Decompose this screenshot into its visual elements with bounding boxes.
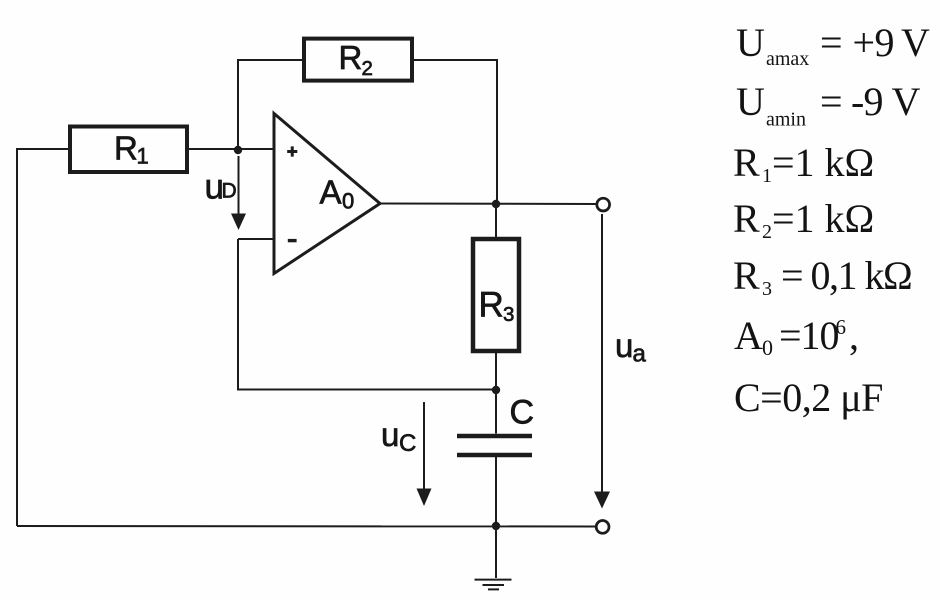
wire node C to capacitor (495, 390, 497, 434)
svg-text:Uamin=-9V: Uamin=-9V (736, 79, 921, 131)
svg-text:uC: uC (381, 416, 416, 457)
wire left rail (16, 149, 18, 526)
wire output node to R3 (495, 204, 497, 237)
resistor R3 (473, 239, 519, 351)
op-amp - input marker (288, 239, 297, 242)
node + input junction (234, 146, 242, 154)
resistor R2 (304, 39, 412, 81)
wire output (380, 203, 596, 206)
svg-text:R3= 0,1 kΩ: R3= 0,1 kΩ (733, 253, 911, 300)
wire R2 left branch (238, 60, 302, 150)
svg-text:C: C (510, 393, 535, 431)
node ground junction (492, 522, 500, 530)
svg-text:Uamax=+9V: Uamax=+9V (736, 20, 930, 70)
arrow uD (231, 156, 246, 230)
wire - input (238, 238, 274, 240)
wire capacitor to ground rail (495, 457, 497, 526)
terminal output top (597, 198, 610, 211)
svg-text:C=0,2 μF: C=0,2 μF (734, 375, 883, 420)
ground symbol (475, 580, 512, 590)
terminal output bottom (596, 521, 609, 534)
capacitor C plates (457, 436, 532, 455)
wire bottom rail (17, 525, 596, 528)
wire R1 input (16, 148, 68, 150)
svg-text:uD: uD (205, 167, 237, 206)
wire feedback to node C (238, 239, 496, 390)
arrow uC (417, 402, 432, 506)
node C junction (492, 386, 500, 394)
svg-text:R2=1 kΩ: R2=1 kΩ (733, 196, 874, 243)
resistor R1 (70, 127, 187, 173)
svg-text:R1=1 kΩ: R1=1 kΩ (733, 140, 874, 187)
svg-text:A0=106,: A0=106, (734, 313, 859, 360)
ground stem (495, 526, 497, 578)
wire R2 right branch (414, 60, 497, 204)
node output junction (492, 200, 500, 208)
svg-text:ua: ua (615, 327, 647, 367)
op-amp A0 triangle (274, 114, 380, 274)
op-amp + input marker (287, 146, 297, 156)
arrow ua (594, 214, 610, 509)
wire R1 to + input (189, 148, 274, 150)
wire R3 to node C (495, 351, 497, 390)
